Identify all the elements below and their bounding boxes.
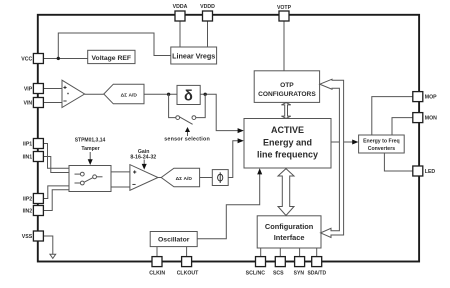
wire IIN2 to tamper: [43, 190, 69, 211]
svg-text:OTP: OTP: [280, 82, 294, 89]
wire tamper to amp2 upper: [111, 171, 130, 173]
wire phi to ACTIVE: [228, 141, 238, 178]
op-amp A1: [62, 80, 85, 107]
svg-text:VDDD: VDDD: [200, 4, 215, 10]
wire SDA stub: [316, 248, 318, 257]
svg-text:Energy and: Energy and: [263, 137, 312, 147]
svg-text:IIN2: IIN2: [23, 209, 33, 215]
svg-text:Converters: Converters: [368, 146, 396, 152]
svg-text:IIN1: IIN1: [23, 155, 33, 161]
node VCC junction: [57, 57, 60, 60]
ground: [50, 254, 56, 258]
svg-text:CLKOUT: CLKOUT: [177, 271, 199, 277]
svg-text:VIP: VIP: [24, 87, 33, 93]
box ACTIVE energy: [244, 119, 331, 169]
wire VSS ground: [43, 236, 52, 254]
pin CLKIN: [152, 257, 162, 267]
wire SCL stub: [260, 248, 262, 257]
svg-text:VCC: VCC: [21, 57, 32, 63]
pin VDDA: [175, 11, 185, 21]
pin SYN: [295, 257, 305, 267]
svg-text:VDDA: VDDA: [173, 4, 188, 10]
arrowhead into ACTIVE bottom: [257, 168, 262, 174]
pin IIN2: [33, 206, 43, 216]
wire SCS stub: [279, 248, 281, 257]
svg-text:ΔΣ A/D: ΔΣ A/D: [176, 176, 193, 182]
wire VOTP stub: [283, 21, 285, 71]
pin IIP2: [33, 194, 43, 204]
pin IIN1: [33, 152, 43, 162]
wire amp1 output: [85, 93, 104, 95]
pin SDA/TD: [312, 257, 322, 267]
svg-text:STPM01,3,14: STPM01,3,14: [75, 138, 106, 144]
pin VIP: [33, 84, 43, 94]
svg-text:SCS: SCS: [273, 271, 284, 277]
wire oscillator to ACTIVE: [197, 174, 260, 239]
arrow tamper pointer: [89, 152, 91, 160]
svg-text:VIN: VIN: [24, 101, 33, 107]
pin VOTP: [279, 11, 289, 21]
wire converters to LED: [384, 153, 412, 171]
svg-text:δ: δ: [184, 89, 193, 105]
node delta output junction: [204, 93, 207, 96]
box Linear Vregs: [171, 47, 217, 64]
pin CLKOUT: [182, 257, 192, 267]
wire tamper to amp2 lower: [111, 186, 130, 188]
pin LED: [413, 166, 423, 176]
arrow gain pointer: [143, 160, 145, 165]
arrow OTP to ACTIVE double: [281, 103, 290, 119]
wire VDDD stub: [207, 21, 209, 47]
svg-text:8-16-24-32: 8-16-24-32: [130, 154, 156, 160]
pin VCC: [33, 54, 43, 64]
chip outline: [38, 15, 419, 262]
wire VIP to amp: [43, 88, 62, 90]
arrow OTP to Configuration U shaped: [320, 79, 344, 237]
arrowhead into ACTIVE lower: [238, 138, 244, 143]
pin IIP1: [33, 139, 43, 149]
svg-text:MOP: MOP: [425, 95, 437, 101]
svg-text:SDA/TD: SDA/TD: [307, 271, 326, 277]
svg-text:Oscillator: Oscillator: [158, 237, 190, 244]
svg-text:sensor selection: sensor selection: [164, 136, 210, 142]
wire IIP1 to tamper: [43, 144, 69, 169]
wire MOP to converters: [372, 97, 413, 135]
svg-text:IIP1: IIP1: [23, 142, 32, 148]
svg-text:VSS: VSS: [22, 234, 33, 240]
wire CLKOUT stub: [186, 247, 188, 257]
pin VDDD: [203, 11, 213, 21]
svg-text:line frequency: line frequency: [257, 150, 318, 160]
wire SYN stub: [299, 248, 301, 257]
arrow sensor selection pointer: [187, 132, 189, 136]
svg-text:MON: MON: [425, 116, 437, 122]
box Oscillator: [150, 232, 197, 247]
arrowhead into converters: [352, 140, 358, 145]
svg-text:Energy to Freq: Energy to Freq: [363, 138, 400, 144]
A/D converter 1: [104, 84, 144, 104]
wire VCC riser to Linear Vregs: [58, 33, 171, 59]
pin SCL/NC: [256, 257, 266, 267]
pin VIN: [33, 98, 43, 108]
A/D converter 2: [161, 168, 199, 187]
svg-text:LED: LED: [425, 169, 436, 175]
svg-text:Interface: Interface: [274, 233, 305, 242]
delta modulator box: [177, 85, 200, 104]
box Energy to Freq converters: [359, 135, 405, 153]
box tamper switches: [69, 166, 111, 192]
svg-text:CLKIN: CLKIN: [149, 271, 165, 277]
op-amp A2: [130, 165, 158, 191]
wire MON to converters: [392, 118, 413, 135]
wire amp2 output: [158, 177, 161, 179]
pin SCS: [275, 257, 285, 267]
box OTP configurators: [254, 71, 319, 103]
wire AD1 to delta box: [144, 93, 177, 95]
wire IIN1 to tamper: [43, 157, 69, 173]
svg-text:ΔΣ A/D: ΔΣ A/D: [121, 92, 138, 98]
pin MON: [413, 113, 423, 123]
wire VDDA stub: [179, 21, 181, 47]
wire IIP2 to tamper: [43, 186, 69, 199]
wire CLKIN stub: [156, 247, 158, 257]
svg-text:Linear Vregs: Linear Vregs: [172, 51, 215, 60]
svg-text:VOTP: VOTP: [277, 5, 292, 11]
wire sensor switch bypass left: [169, 94, 176, 117]
svg-text:CONFIGURATORS: CONFIGURATORS: [258, 91, 316, 98]
wire VIN to amp: [43, 102, 62, 104]
arrow ACTIVE to Configuration double: [278, 169, 294, 216]
svg-text:Configuration: Configuration: [265, 222, 314, 231]
svg-text:SCL/NC: SCL/NC: [246, 271, 266, 277]
wire sensor switch bypass right: [196, 94, 205, 117]
wire AD2 to phi: [200, 177, 213, 179]
phase compensation box: [212, 170, 228, 186]
pin VSS: [33, 231, 43, 241]
wire delta out to ACTIVE: [200, 94, 238, 130]
svg-text:SYN: SYN: [294, 271, 305, 277]
box Configuration Interface: [257, 216, 321, 248]
node AD1 output junction: [167, 93, 170, 96]
svg-text:Voltage REF: Voltage REF: [92, 55, 132, 62]
box Voltage REF: [88, 50, 135, 63]
svg-text:IIP2: IIP2: [23, 197, 32, 203]
svg-text:Tamper: Tamper: [81, 146, 99, 152]
arrowhead into ACTIVE upper: [238, 128, 244, 133]
svg-text:ACTIVE: ACTIVE: [271, 125, 304, 135]
switch sensor selection: [176, 116, 180, 120]
pin MOP: [413, 92, 423, 102]
wire ACTIVE to Energy to Freq: [331, 141, 353, 143]
wire VCC to Voltage REF: [43, 58, 87, 60]
